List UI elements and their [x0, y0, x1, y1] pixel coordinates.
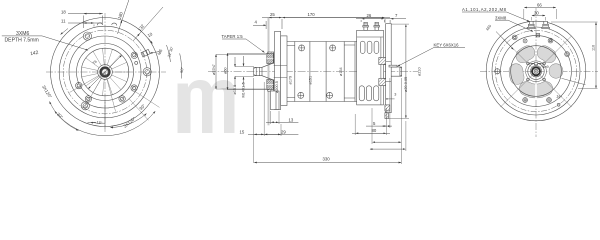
svg-text:80: 80	[372, 128, 377, 133]
M6 hole 4	[131, 85, 137, 91]
right view texts	[462, 2, 596, 99]
centerline	[208, 71, 418, 73]
dim 10 slot	[149, 39, 153, 44]
big hole H3	[81, 102, 89, 110]
vent wings	[523, 53, 528, 56]
middle view texts	[212, 12, 459, 162]
watermark letter m	[178, 80, 235, 133]
dim 36 studs	[356, 19, 390, 22]
svg-text:ø60: ø60	[224, 67, 228, 74]
bracket lower hatched	[385, 105, 390, 111]
housing circle	[59, 26, 151, 118]
hole left centerline	[494, 68, 500, 74]
svg-text:4h9: 4h9	[542, 65, 548, 69]
svg-text:ø210: ø210	[418, 67, 422, 76]
svg-text:ø15.8: ø15.8	[233, 85, 237, 95]
svg-text:25: 25	[270, 12, 275, 17]
M8 hole d	[548, 38, 553, 43]
svg-text:ø200.5: ø200.5	[275, 81, 279, 93]
tiny pin hole	[135, 61, 138, 64]
dim ø210 right	[391, 24, 409, 118]
M8 hole g	[547, 98, 552, 103]
rear bracket plate	[386, 24, 392, 113]
dim 76 diameter	[88, 55, 122, 89]
label A1 leader	[462, 12, 530, 22]
arc dim bottom-right 30deg	[111, 114, 147, 128]
dim ø57h7	[216, 55, 266, 90]
LEFT VIEW: drive-end face	[2, 0, 185, 136]
MIDDLE VIEW: longitudinal section	[208, 12, 465, 164]
circle r28.5	[77, 44, 134, 101]
outer circle ø180	[51, 18, 160, 127]
rear key	[389, 65, 397, 67]
terminal block	[357, 30, 384, 105]
label M6 leader	[150, 52, 160, 54]
M6 hole 2	[76, 82, 82, 88]
svg-text:110: 110	[592, 45, 596, 51]
dim 132 radial ray	[133, 7, 163, 41]
arc dim bottom 15deg	[91, 122, 106, 123]
dim 180 radial ray	[117, 0, 129, 34]
hub boss	[98, 65, 113, 80]
body inner steps	[287, 45, 355, 98]
centerline vertical	[104, 13, 106, 132]
big hole H1	[83, 32, 91, 40]
svg-text:13: 13	[289, 118, 294, 123]
vent slots top row	[360, 41, 379, 53]
dim 3 bracket	[386, 98, 395, 100]
flange plate back	[281, 36, 287, 106]
bracket foot hatched	[385, 113, 389, 119]
dim 330	[254, 162, 401, 164]
terminal stud left top	[528, 21, 536, 28]
flange hub hatched top	[268, 52, 274, 63]
dim 142 leader	[61, 29, 69, 35]
hole top-left	[512, 35, 517, 40]
dim M14X1.5	[243, 56, 245, 87]
dim ø60	[228, 53, 270, 89]
svg-text:ø179: ø179	[289, 76, 293, 85]
svg-text:66: 66	[537, 2, 542, 7]
circle r25.8	[511, 46, 562, 97]
bolt circle dash-dot	[495, 30, 576, 111]
diagonal spokes	[501, 36, 572, 107]
terminal stud right top	[542, 21, 550, 28]
shaft thread stub M14	[254, 67, 262, 75]
big hole H2	[143, 68, 151, 76]
circle r44.8	[492, 27, 580, 115]
balance mark 1	[299, 45, 305, 51]
shaft taper 1:5	[262, 63, 273, 79]
label 160 leader	[496, 32, 514, 50]
hub bore	[102, 69, 108, 75]
svg-text:15: 15	[240, 130, 245, 135]
body outline	[287, 42, 357, 102]
slot on rim	[141, 49, 150, 57]
svg-text:ø154: ø154	[339, 67, 343, 76]
rear bearing boss bolts	[379, 58, 386, 86]
ext line y142	[372, 78, 402, 164]
angle 22deg30 arc	[167, 45, 171, 62]
rear shaft	[391, 67, 401, 76]
M6 hole 5	[119, 96, 125, 102]
front stud dark top	[267, 54, 274, 64]
svg-text:11: 11	[61, 18, 66, 23]
svg-text:ø57h7: ø57h7	[212, 64, 216, 75]
taper label leader	[222, 39, 265, 53]
dim 110	[551, 22, 598, 89]
dim 18	[68, 14, 103, 28]
left view texts	[5, 9, 185, 128]
dim 4h9 key	[529, 63, 544, 65]
screw hole c	[523, 39, 527, 43]
svg-text:3: 3	[394, 93, 396, 97]
dim 13	[266, 111, 298, 124]
stud right	[374, 22, 380, 30]
svg-text:ø151: ø151	[309, 76, 313, 85]
dim 7	[390, 19, 406, 23]
arc dim bottom-left 3X120	[50, 102, 79, 131]
bolt circle ø142 dash-dot	[63, 30, 147, 114]
dim ø15.8	[235, 57, 254, 87]
ext line y149	[370, 121, 406, 151]
dim 4	[253, 21, 266, 29]
hub spokes	[82, 49, 129, 96]
rear hub washers	[383, 62, 391, 82]
stud left	[363, 22, 369, 30]
hub circles	[526, 61, 547, 82]
hub hatched ring	[101, 68, 110, 77]
dim 80	[352, 114, 390, 135]
svg-text:ø20-0.05: ø20-0.05	[404, 77, 408, 92]
outer circle	[486, 21, 586, 121]
balance mark 2	[330, 45, 336, 51]
flange plate front	[275, 32, 281, 110]
bottom angle rays	[70, 72, 116, 129]
svg-text:330: 330	[323, 157, 331, 162]
centerline horizontal	[46, 71, 166, 73]
shaft bore lines	[274, 66, 287, 78]
svg-text:M14X1.5: M14X1.5	[241, 82, 245, 97]
tiny hole h	[557, 103, 560, 106]
dims 66 and 30	[524, 8, 557, 21]
key label leader	[398, 48, 466, 67]
label 3XM8 leader	[495, 20, 533, 31]
dim 11	[68, 23, 102, 27]
svg-text:DEPTH 7.5mm: DEPTH 7.5mm	[5, 38, 39, 44]
svg-text:30: 30	[534, 11, 539, 16]
RIGHT VIEW: rear face	[462, 2, 598, 137]
M8 hole e	[565, 52, 570, 57]
circle r36.2	[501, 36, 572, 107]
svg-text:KEY 6X6X16: KEY 6X6X16	[434, 42, 460, 47]
centerline horizontal	[480, 71, 598, 73]
svg-text:3XM6: 3XM6	[16, 31, 29, 37]
square bolt below studs	[536, 34, 539, 37]
gasket gray band	[268, 18, 270, 126]
dim 15 and 29	[248, 78, 298, 163]
front stud dark bottom	[267, 80, 274, 90]
flange foot	[270, 91, 279, 109]
svg-text:3XM8: 3XM8	[495, 15, 507, 20]
svg-text:170: 170	[308, 12, 316, 17]
svg-text:TAPER 1:5: TAPER 1:5	[222, 34, 244, 39]
label 3XM6 DEPTH	[2, 36, 88, 50]
svg-text:A1,101,A2,202,M8: A1,101,A2,202,M8	[462, 7, 507, 12]
key slot	[534, 63, 537, 65]
M6 hole 3	[85, 96, 91, 102]
outer arc bottom-right	[55, 111, 155, 135]
balance mark 3	[298, 92, 304, 98]
angle 60deg arc	[180, 53, 182, 78]
ray extensions bottom-right	[129, 92, 159, 121]
rivets on diagonals	[527, 62, 546, 81]
M8 hole f	[523, 98, 528, 103]
15deg ray	[562, 78, 586, 85]
boss bumps on rim top	[97, 23, 117, 26]
centerline vertical	[535, 8, 537, 137]
svg-text:18: 18	[61, 9, 66, 14]
svg-text:29: 29	[281, 130, 286, 135]
circle ø76	[81, 48, 129, 96]
M6 hole 1	[131, 52, 137, 58]
inner circle	[69, 36, 141, 108]
balance mark 4	[327, 92, 333, 98]
vent slots bottom row	[359, 86, 379, 101]
flange hub hatched bottom	[268, 80, 274, 91]
svg-text:26: 26	[367, 13, 372, 18]
dim 5	[366, 78, 392, 128]
dim 25 and 170 top line	[262, 18, 390, 29]
